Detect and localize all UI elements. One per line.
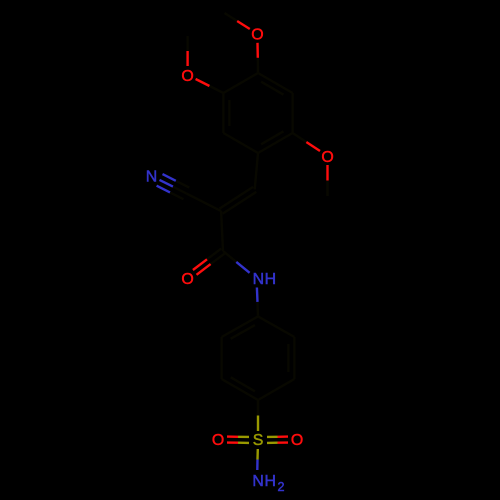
ring1 bond C5-C6 (aromatic double) xyxy=(223,93,229,133)
ring1 bond C1-C2 (aromatic double) xyxy=(258,73,293,95)
amide bond C-NH xyxy=(223,251,250,273)
bond Ca-C nitrile xyxy=(186,193,221,211)
svg-text:O: O xyxy=(291,432,303,449)
bond Ca-C amide xyxy=(221,211,223,251)
svg-text:O: O xyxy=(181,271,193,288)
svg-text:NH: NH xyxy=(253,271,277,288)
bond O-C1 (top methoxy to ring) xyxy=(256,43,259,73)
bond O-CH3 (left methoxy methyl) xyxy=(186,36,188,66)
svg-text:S: S xyxy=(253,432,264,449)
svg-text:O: O xyxy=(251,27,263,44)
ring2 bond B2-B3 (aromatic double) xyxy=(288,337,294,379)
vinyl double bond CH=Ca xyxy=(220,187,257,214)
svg-text:O: O xyxy=(181,68,193,85)
bond O-CH3 (top methoxy methyl) xyxy=(225,13,250,29)
bond ring2-S xyxy=(257,400,259,431)
bond O-C6 (left methoxy to ring) xyxy=(196,79,224,93)
ring1 bond C2-C3 xyxy=(291,93,293,133)
bond O-C3 (right methoxy to ring) xyxy=(293,133,320,151)
ring1 bond C3-C4 (aromatic double) xyxy=(258,131,293,153)
bond C4-CH (ring to vinyl) xyxy=(255,153,258,189)
ring2 bond B3-B4 xyxy=(258,379,294,400)
amide double bond C=O xyxy=(193,249,225,275)
sulfonyl double bond S=O left xyxy=(227,437,249,443)
bond NH-ring2 xyxy=(257,288,258,317)
bond O-CH3 (right methoxy methyl) xyxy=(326,165,328,196)
bond S-NH2 xyxy=(256,449,259,470)
ring1 bond C6-C1 xyxy=(223,73,258,93)
sulfonyl double bond S=O right xyxy=(267,437,288,443)
ring2 bond B6-B1 (aromatic double) xyxy=(222,316,258,338)
ring1 bond C4-C5 xyxy=(223,133,258,153)
ring2 bond B4-B5 (aromatic double) xyxy=(222,377,258,400)
svg-text:O: O xyxy=(212,432,224,449)
ring2 bond B1-B2 xyxy=(258,316,294,337)
svg-text:N: N xyxy=(146,169,157,186)
svg-text:O: O xyxy=(321,149,333,166)
ring2 bond B5-B6 xyxy=(220,337,222,379)
nitrile triple bond C#N xyxy=(157,174,190,199)
